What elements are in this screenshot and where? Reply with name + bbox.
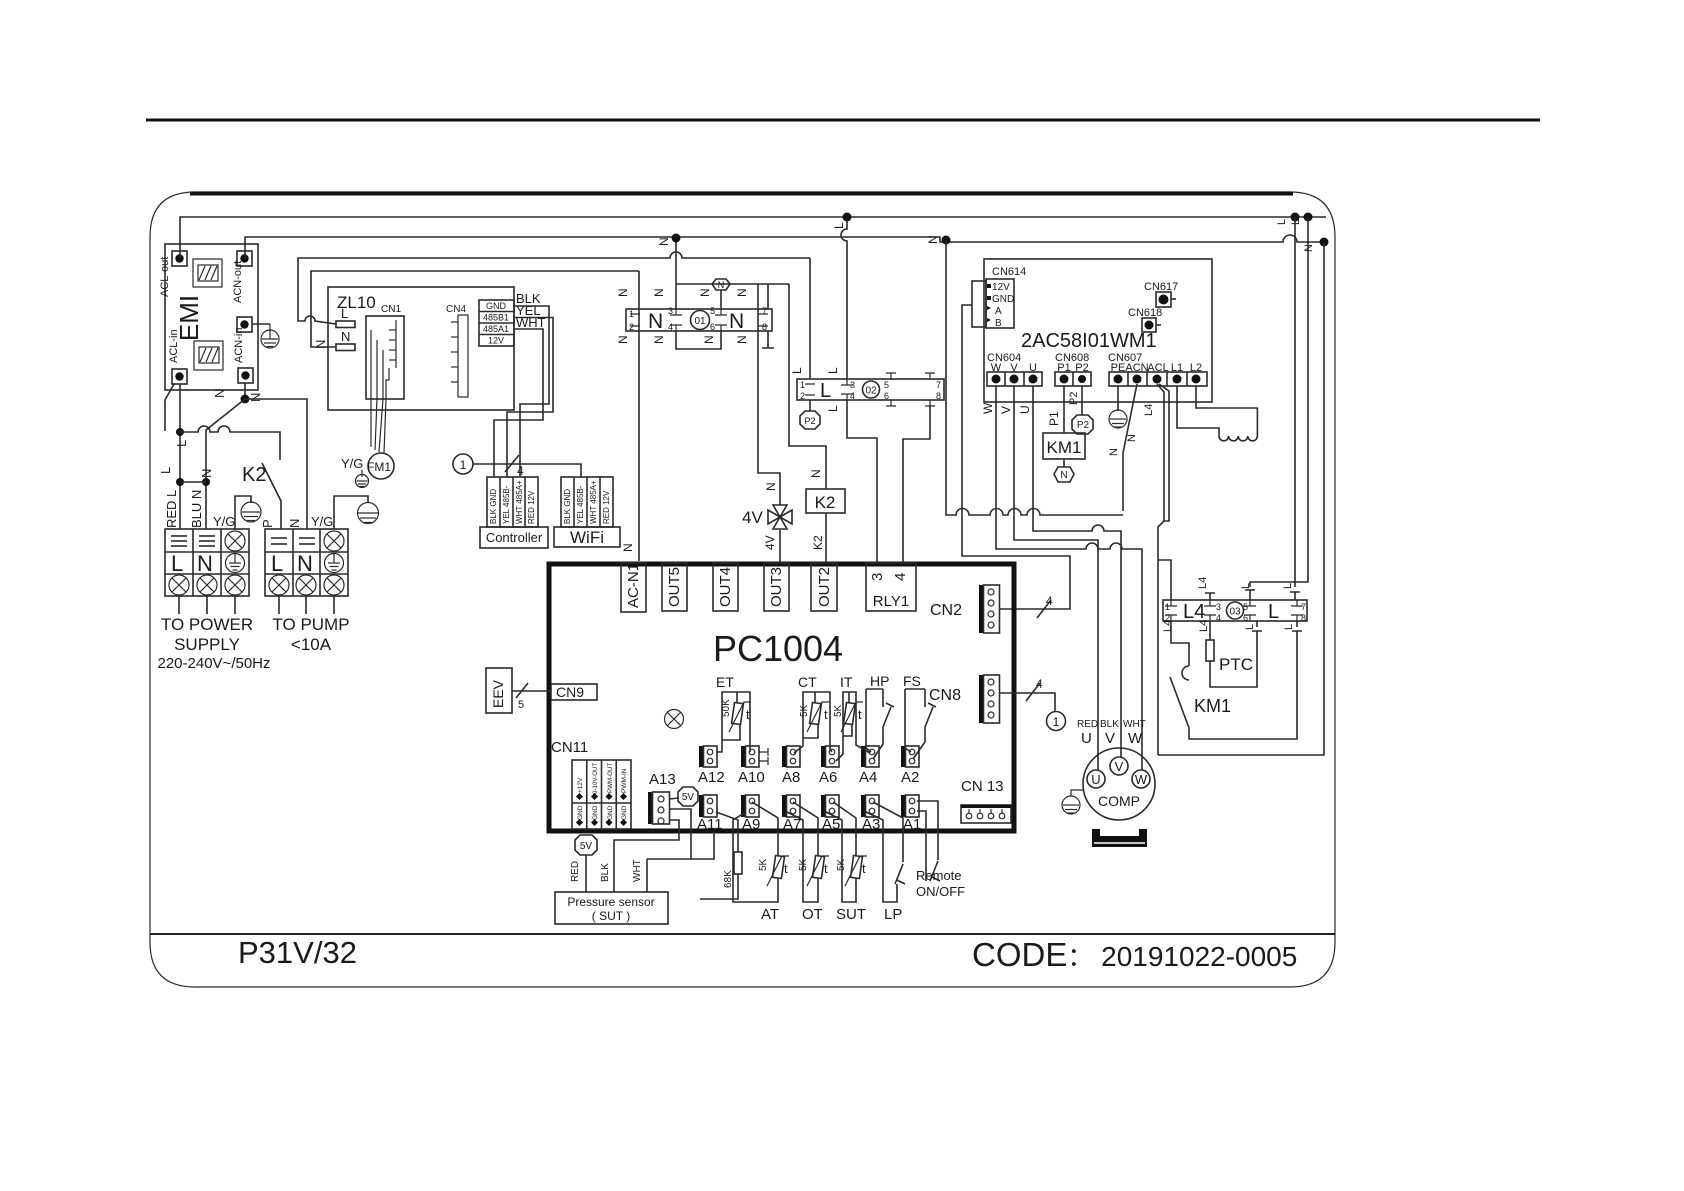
svg-text:CT: CT (798, 674, 817, 690)
svg-text:K2: K2 (811, 535, 825, 550)
svg-text:BLK GND: BLK GND (489, 489, 498, 524)
wire K2 drop (789, 284, 826, 489)
svg-text:N: N (729, 310, 744, 333)
svg-text:L: L (271, 551, 283, 576)
connector A4 (861, 746, 866, 767)
svg-text:N: N (297, 551, 313, 576)
svg-text:HP: HP (870, 673, 889, 689)
svg-text:A4: A4 (859, 769, 877, 786)
N hex above pin5 (712, 279, 730, 290)
power block PE symbol (226, 554, 245, 573)
fuse N (336, 344, 355, 351)
right lower block 03 PTC KM1 COMP (1062, 217, 1324, 847)
connector A3 (861, 795, 866, 817)
svg-text:02: 02 (865, 386, 877, 397)
wire B N-feed (311, 271, 639, 347)
svg-text:A: A (995, 306, 1002, 317)
svg-text:K2: K2 (815, 493, 836, 512)
svg-text:2: 2 (800, 391, 805, 401)
junction N right end (1320, 238, 1329, 247)
svg-text:N: N (926, 235, 940, 244)
power Y/G wire to ground (235, 496, 251, 529)
svg-text:V: V (1115, 759, 1124, 774)
svg-text:EEV: EEV (490, 679, 506, 708)
wire N rail horizontal (946, 240, 1123, 515)
resistor 68K (716, 812, 738, 852)
PTC resistor (1206, 640, 1214, 661)
svg-text:W: W (1135, 772, 1148, 787)
COMP terminal U (1087, 770, 1105, 788)
wire L drop to pin3 (841, 215, 847, 379)
svg-text:WHT 485A+: WHT 485A+ (589, 480, 598, 524)
svg-text:03: 03 (1229, 607, 1241, 618)
svg-text:1: 1 (1165, 602, 1170, 612)
wire PTC to pin6 (1210, 621, 1262, 687)
svg-text:5K: 5K (833, 704, 844, 717)
svg-text:8: 8 (936, 391, 941, 401)
svg-text:N: N (197, 551, 213, 576)
connector A6 (821, 746, 826, 767)
svg-text:GND: GND (992, 294, 1014, 305)
junction dot ACN (241, 395, 250, 404)
svg-text:CN9: CN9 (556, 684, 584, 700)
connector A7 (782, 795, 787, 817)
svg-text:GND: GND (577, 805, 584, 820)
L labels around block02 (790, 367, 840, 412)
svg-text:L: L (1244, 624, 1256, 630)
connector A2 (901, 746, 906, 767)
P2 octagon right (1072, 415, 1093, 434)
svg-text:CODE： 20191022-0005: CODE： 20191022-0005 (972, 936, 1297, 973)
svg-text:P2: P2 (1077, 420, 1090, 431)
svg-text:4V: 4V (742, 508, 763, 527)
svg-text:L: L (1276, 219, 1288, 225)
connector A9 (741, 795, 746, 817)
svg-text:5K: 5K (836, 858, 847, 871)
svg-text:KM1: KM1 (1047, 438, 1082, 457)
wire pin4 to pin6 loop (676, 331, 721, 349)
svg-text:L4: L4 (1197, 577, 1209, 589)
svg-text:L: L (174, 440, 189, 447)
wire N main (245, 235, 1324, 258)
svg-text:A6: A6 (819, 769, 837, 786)
COMP circle (1083, 748, 1155, 820)
svg-text:V: V (1105, 730, 1115, 747)
svg-text:N: N (199, 469, 214, 478)
svg-text:L: L (832, 222, 846, 229)
wire pin2 to KM1 contact (1171, 621, 1189, 666)
svg-text:N: N (287, 519, 302, 528)
block01 pin numbers (629, 306, 767, 332)
svg-text:A10: A10 (738, 769, 765, 786)
power block row3 circles (169, 575, 245, 595)
ground EMI (261, 324, 279, 348)
pressure sensor box (555, 892, 668, 924)
svg-text:6: 6 (1243, 613, 1248, 623)
svg-text:50K: 50K (721, 699, 732, 717)
circle 03 (1227, 602, 1244, 619)
svg-text:7: 7 (1301, 602, 1306, 612)
svg-text:N: N (1108, 448, 1120, 456)
svg-text:AC-N1: AC-N1 (625, 563, 642, 608)
svg-text:L4: L4 (1183, 601, 1205, 623)
pin3 cap stub (1205, 593, 1215, 600)
svg-text:N: N (657, 237, 671, 246)
terminal ACL-in (172, 369, 187, 384)
svg-text:Y/G: Y/G (213, 514, 235, 529)
svg-text:6: 6 (710, 322, 715, 332)
wire N to AC-N1 (638, 271, 640, 561)
svg-text:U: U (1081, 730, 1092, 747)
svg-text:L: L (826, 405, 840, 412)
pump Y/G wire to ground (334, 496, 368, 529)
svg-text:L4: L4 (1198, 620, 1210, 632)
svg-text:8: 8 (1301, 613, 1306, 623)
svg-text:A2: A2 (901, 769, 919, 786)
svg-text:1: 1 (800, 380, 805, 390)
svg-text:5V: 5V (580, 841, 593, 852)
wire P2 down (1081, 386, 1083, 415)
fuse L (336, 321, 355, 328)
svg-text:A12: A12 (698, 769, 725, 786)
svg-text:CN1: CN1 (381, 304, 401, 315)
block02 pin numbers (800, 380, 941, 401)
pump terminal block (265, 529, 348, 596)
connector A10 (741, 746, 746, 767)
junction N right (942, 236, 951, 245)
svg-text:W: W (981, 402, 995, 414)
svg-text:N: N (1303, 244, 1315, 252)
A10 capped stubs (759, 748, 768, 765)
svg-text:N: N (718, 280, 725, 290)
svg-text:V: V (999, 406, 1013, 414)
connector RLY1 (866, 563, 916, 611)
svg-text:4: 4 (668, 322, 673, 332)
fan FM1 (368, 453, 394, 479)
connector A1 (901, 795, 906, 817)
power block leads (179, 596, 235, 614)
svg-text:GND: GND (486, 301, 507, 311)
wires CN1 to fan (371, 330, 389, 453)
wire link (180, 481, 206, 483)
KM1 contact arc (1182, 666, 1189, 680)
svg-text:L: L (171, 551, 183, 576)
slash 4 (505, 455, 519, 472)
choke coil (1219, 436, 1257, 441)
terminal ACN-out (237, 251, 252, 266)
wire W down (996, 386, 1142, 770)
wire L right2 down to pin5 cap (1245, 217, 1308, 600)
svg-text:3: 3 (668, 306, 673, 316)
svg-text:Y/G: Y/G (341, 456, 363, 471)
svg-text:N: N (735, 335, 749, 344)
svg-text:N: N (248, 393, 263, 402)
svg-text:t: t (784, 861, 788, 876)
wire K2 to OUT2 (825, 513, 827, 563)
wire A13 pin3 BLK (614, 820, 679, 892)
terminal ACL-out (172, 251, 187, 266)
inverter board 2AC58I01WM1 (984, 259, 1212, 402)
wire ACL down (1157, 384, 1164, 755)
svg-text:12V: 12V (992, 282, 1010, 293)
wifi connector (561, 477, 613, 527)
5V circle A13 (678, 787, 698, 806)
power block fuse circle row1 (225, 531, 245, 551)
EMI filter block (159, 244, 279, 390)
title bar line (150, 933, 1335, 935)
svg-text:7: 7 (936, 380, 941, 390)
junction L mid (843, 213, 852, 222)
wire WHT (646, 859, 648, 892)
wire N tap to 4V and K2 (676, 283, 789, 285)
svg-text:N: N (1126, 434, 1138, 442)
svg-text:L: L (790, 367, 804, 374)
svg-text:N: N (648, 310, 663, 333)
N transformer block 01 (626, 309, 772, 331)
sensor AT (733, 802, 778, 902)
svg-text:CN8: CN8 (929, 687, 961, 704)
wire N diagonal to BLU N (206, 399, 245, 529)
svg-text:IT: IT (840, 674, 853, 690)
connector A11 (699, 795, 704, 817)
PC1004 board outline (549, 564, 1014, 831)
wifi box (554, 527, 620, 547)
wire ACL branch to block03 pin1 (1158, 560, 1171, 600)
wire 4V drop (758, 284, 780, 505)
svg-text:3: 3 (850, 380, 855, 390)
svg-text:3: 3 (1216, 602, 1221, 612)
svg-text:TO POWER: TO POWER (161, 615, 253, 634)
svg-text:GND: GND (607, 805, 614, 820)
svg-text:B: B (995, 318, 1002, 329)
svg-text:N: N (616, 288, 630, 297)
sensor SUT (826, 802, 856, 902)
svg-text:N: N (698, 288, 712, 297)
svg-text:KM1: KM1 (1194, 696, 1231, 716)
svg-text:N: N (652, 288, 666, 297)
wire U down (1033, 386, 1121, 757)
controller connector (487, 477, 538, 527)
svg-text:3: 3 (869, 573, 886, 581)
svg-text:N: N (1060, 470, 1067, 481)
svg-text:CN2: CN2 (930, 602, 962, 619)
svg-text:WHT: WHT (1123, 719, 1146, 730)
svg-text:A8: A8 (782, 769, 800, 786)
connector OUT2 (811, 563, 837, 611)
svg-text:WiFi: WiFi (570, 528, 604, 547)
wire RED (585, 855, 587, 892)
junction dot (176, 428, 184, 436)
slash 4 CN2 wire (1037, 600, 1051, 618)
svg-text:L4: L4 (1143, 404, 1155, 416)
svg-text:A1: A1 (903, 816, 921, 833)
svg-text:t: t (858, 707, 862, 722)
wire ACN-in down (244, 383, 246, 399)
wire pin8 stub (762, 331, 774, 348)
svg-text:t: t (746, 707, 750, 722)
svg-text:L: L (1283, 624, 1295, 630)
slash 4 CN8 (1026, 683, 1040, 701)
N hex below KM1 (1054, 467, 1074, 482)
junction dot (176, 478, 184, 486)
svg-text:485A1: 485A1 (483, 324, 509, 334)
outer rounded border (150, 192, 1335, 987)
svg-text:WHT: WHT (632, 859, 643, 882)
connector AC-N1 (621, 563, 646, 612)
wire pin2 to P2 (809, 400, 811, 411)
svg-text:t: t (862, 861, 866, 876)
svg-text:PTC: PTC (1219, 655, 1253, 674)
svg-text:LP: LP (884, 906, 902, 923)
svg-text:<10A: <10A (291, 635, 332, 654)
terminal ACN-in mid (237, 317, 252, 332)
svg-text:L: L (1282, 583, 1294, 589)
svg-text:N: N (652, 335, 666, 344)
svg-text:5K: 5K (758, 858, 769, 871)
wire N right down and around (1158, 242, 1324, 755)
svg-text:Pressure sensor: Pressure sensor (567, 895, 654, 909)
svg-text:OUT5: OUT5 (666, 567, 683, 607)
svg-text:PWM-OUT: PWM-OUT (607, 763, 614, 793)
svg-text:N: N (212, 389, 227, 398)
svg-text:K2: K2 (242, 464, 266, 486)
svg-text:AT: AT (761, 906, 779, 923)
lamp symbol (665, 710, 684, 729)
svg-text:5V: 5V (682, 792, 695, 803)
svg-text:RED 12V: RED 12V (602, 490, 611, 524)
svg-text:A3: A3 (862, 816, 880, 833)
svg-text:COMP: COMP (1098, 793, 1140, 809)
svg-text:TO PUMP: TO PUMP (272, 615, 349, 634)
svg-text:1: 1 (460, 458, 467, 472)
wire EMI PE to ground (252, 323, 270, 325)
wire pin4 to PTC (1209, 621, 1211, 640)
svg-text:1: 1 (629, 309, 634, 319)
svg-text:OUT4: OUT4 (717, 567, 734, 607)
svg-text:7: 7 (762, 306, 767, 316)
svg-text:4: 4 (892, 573, 909, 581)
svg-text:4: 4 (850, 391, 855, 401)
svg-text:FS: FS (903, 673, 921, 689)
bus wire to wifi (473, 464, 581, 477)
ground fan (356, 470, 369, 488)
EMI inductor 1 (193, 259, 222, 287)
pump block PE symbol (325, 554, 344, 573)
border thick top edge (190, 192, 1293, 196)
svg-text:ON/OFF: ON/OFF (916, 884, 965, 899)
svg-text:L: L (826, 367, 840, 374)
svg-text:5: 5 (1243, 602, 1248, 612)
wire choke to L2 (1196, 386, 1257, 436)
COMP mount bracket (1092, 829, 1147, 847)
svg-text:L: L (820, 380, 831, 402)
wire RLY1 pin4 to pin8 (903, 406, 930, 563)
svg-text:L: L (1268, 601, 1279, 623)
COMP terminal V (1110, 757, 1128, 775)
svg-text:N: N (616, 335, 630, 344)
junction L right 2 (1304, 213, 1313, 222)
EMI box (165, 244, 258, 390)
svg-text:OT: OT (802, 906, 823, 923)
svg-text:FM1: FM1 (367, 460, 391, 474)
terminal ACN-in (238, 368, 253, 383)
pump block fuse circle row1 (324, 531, 344, 551)
svg-text:4: 4 (517, 464, 524, 478)
svg-text:CN614: CN614 (992, 266, 1026, 278)
connector A8 (782, 746, 787, 767)
connector OUT5 (662, 563, 687, 611)
wire ACL-in down to L (179, 384, 181, 529)
svg-text:A9: A9 (742, 816, 760, 833)
compressor wires labels (1077, 719, 1146, 730)
svg-text:L: L (158, 467, 173, 474)
connector OUT4 (713, 563, 738, 611)
wire WHT from ZL10 (494, 329, 543, 477)
svg-text:ACL-out: ACL-out (159, 257, 171, 297)
4V valve (768, 505, 792, 529)
junction dot BLU (202, 478, 210, 486)
svg-text:SUPPLY: SUPPLY (174, 635, 240, 654)
EMI inductor 2 (194, 341, 223, 370)
junction L right 1 (1291, 213, 1300, 222)
wire A13 pin2 (647, 809, 714, 859)
svg-text:YEL 485B-: YEL 485B- (576, 485, 585, 524)
power block row1 lines symbols (171, 536, 215, 546)
svg-text:PWM-IN: PWM-IN (621, 768, 628, 793)
svg-text:( SUT ): ( SUT ) (592, 909, 630, 923)
wire N to pump (245, 399, 307, 529)
wire hex to pin5 (720, 290, 722, 309)
svg-text:RED L: RED L (164, 490, 179, 528)
power terminal blocks (158, 383, 379, 672)
top rule (146, 119, 1540, 122)
pump block row1 = symbols (271, 538, 315, 544)
controller and wifi (453, 306, 620, 548)
wire BLK from ZL10 (514, 306, 549, 477)
svg-text:YEL 485B-: YEL 485B- (502, 485, 511, 524)
svg-text:ET: ET (716, 674, 734, 690)
pump block row3 circles (269, 575, 344, 595)
CN3 signal table (479, 300, 514, 346)
wire L right1 down to pin7 cap (1290, 217, 1300, 600)
svg-text:A13: A13 (649, 771, 676, 788)
ZL10 box (328, 287, 514, 410)
svg-text:L: L (1290, 219, 1302, 225)
COMP ground (1062, 790, 1084, 814)
connector CN9 (551, 684, 597, 700)
svg-text:5: 5 (710, 306, 715, 316)
svg-text:BLK GND: BLK GND (563, 489, 572, 524)
PC1004 board (486, 271, 1066, 924)
node 1 circle (453, 454, 473, 474)
svg-text:U: U (1018, 405, 1032, 414)
svg-text:P31V/32: P31V/32 (238, 935, 357, 970)
svg-text:BLK: BLK (600, 863, 611, 882)
block03 pin ticks (1165, 600, 1303, 621)
svg-text:0-10V-OUT: 0-10V-OUT (592, 762, 599, 794)
connector OUT3 (764, 563, 789, 611)
svg-text:4: 4 (1036, 677, 1043, 691)
N transformer block 01 and L block 02 (616, 215, 944, 563)
pin8 cap stub (1292, 621, 1302, 631)
svg-text:6: 6 (884, 391, 889, 401)
ZL10 box (298, 252, 810, 488)
wire V down (1014, 386, 1098, 770)
svg-text:P1: P1 (1047, 411, 1061, 426)
wire YEL from ZL10 (507, 318, 553, 478)
svg-text:BLU N: BLU N (189, 490, 204, 528)
wire ACL down second (1159, 384, 1169, 521)
